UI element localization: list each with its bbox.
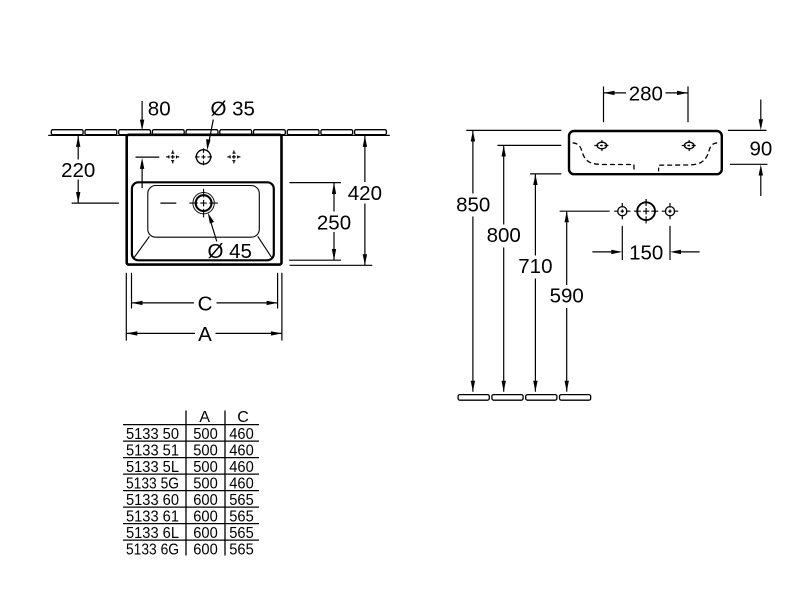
table vertical line 1 [185,411,187,556]
drain crosshair [189,189,218,218]
svg-text:460: 460 [229,443,254,460]
fitting hole small left [614,203,630,219]
wall face line [48,134,390,136]
side tap mark left [166,150,179,163]
table row 8 [126,542,254,559]
tap hole crosshair [195,148,212,165]
dimension Ø35 leader [206,120,213,151]
svg-text:5133 51: 5133 51 [126,443,179,460]
table row 2 [126,443,254,460]
svg-text:280: 280 [629,82,663,105]
body rounded rect (front view) [569,131,722,174]
dimension 280 [604,86,689,122]
svg-text:5133 5G: 5133 5G [126,476,179,493]
svg-text:5133 5L: 5133 5L [126,459,179,476]
svg-text:500: 500 [193,476,218,493]
slope diagonal left [134,236,150,258]
svg-text:800: 800 [487,224,521,247]
dimension 80 [136,101,160,188]
svg-text:5133 60: 5133 60 [126,492,179,509]
side tap mark right [227,150,240,163]
dimension 800 [498,145,562,391]
basin rim rounded rect [132,182,274,260]
svg-text:460: 460 [229,476,254,493]
dimension 590 [565,211,569,391]
svg-text:A: A [199,409,210,426]
hidden basin contour right (dashed) [659,143,718,172]
svg-text:80: 80 [148,97,171,120]
svg-text:5133 61: 5133 61 [126,509,179,526]
fitting hole small right [662,203,678,219]
svg-text:150: 150 [629,241,663,264]
drain centre dash [160,202,176,204]
dimension 250 [289,183,341,261]
drain outer circle [193,192,214,213]
svg-text:500: 500 [193,443,218,460]
table vertical line 2 [224,411,226,556]
basin floor rounded rect [148,186,259,238]
svg-text:500: 500 [193,459,218,476]
tap hole circle (Ø35) [196,150,210,164]
svg-text:Ø 45: Ø 45 [208,240,252,263]
table row 4 [126,476,254,493]
dimension A [126,273,282,341]
svg-text:5133 6L: 5133 6L [126,525,179,542]
svg-text:A: A [198,323,212,346]
mounting hole right [682,140,697,151]
table row 5 [126,492,254,509]
svg-text:565: 565 [229,525,254,542]
svg-text:850: 850 [456,194,490,217]
svg-text:C: C [198,293,213,316]
table row 3 [126,459,254,476]
dimension 220 [72,136,119,203]
dimension 150 [592,226,699,260]
dimension 710 [530,174,561,392]
mounting hole left [594,140,609,151]
svg-text:5133 50: 5133 50 [126,426,179,443]
svg-text:500: 500 [193,426,218,443]
svg-text:220: 220 [61,159,95,182]
basin outer rect (plan) [127,135,282,265]
svg-text:90: 90 [749,137,772,160]
svg-text:600: 600 [193,525,218,542]
table row 6 [126,509,254,526]
svg-text:420: 420 [348,182,382,205]
svg-text:565: 565 [229,509,254,526]
svg-text:C: C [237,409,249,426]
dimension 90 [728,100,768,197]
svg-text:710: 710 [518,255,552,278]
svg-text:590: 590 [550,285,584,308]
drain inner circle [196,195,212,211]
svg-text:600: 600 [193,542,218,559]
svg-text:5133 6G: 5133 6G [126,542,179,559]
dimension 420 [290,136,373,265]
svg-text:600: 600 [193,509,218,526]
dimension Ø45 leader [208,213,217,242]
hidden basin contour left (dashed) [573,143,635,172]
table row 7 [126,525,254,542]
svg-text:460: 460 [229,459,254,476]
table row 1 [126,426,254,443]
svg-text:460: 460 [229,426,254,443]
table horizontal lines [123,425,259,540]
svg-text:600: 600 [193,492,218,509]
fitting hole centre [634,199,658,223]
fitting holes extension line [560,210,610,212]
wall tile row (plan view) [51,130,386,135]
svg-text:565: 565 [229,542,254,559]
dimension 850 [466,130,561,391]
svg-text:565: 565 [229,492,254,509]
dimension C [132,273,278,309]
slope diagonal right [258,236,273,258]
svg-text:Ø 35: Ø 35 [211,97,255,120]
floor tile row [458,395,591,401]
svg-text:250: 250 [317,211,351,234]
